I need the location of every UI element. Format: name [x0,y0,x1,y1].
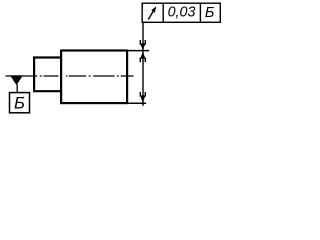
extension line bottom [127,102,146,104]
datum frame box [10,93,30,113]
svg-text:Б: Б [14,93,25,112]
part outline: small cylinder (left step) [34,58,61,92]
radial runout symbol arrow shaft [148,10,154,20]
svg-text:Б: Б [205,5,215,21]
arrowhead up below top extension line [140,52,146,62]
radial runout symbol arrowhead [151,6,156,13]
extension line top [127,50,149,52]
centerline axis: solid left portion at datum [6,75,38,77]
datum triangle [10,75,23,85]
arrowhead down at bottom extension line [140,92,146,103]
arrowhead down at top extension line [140,40,146,50]
svg-text:0,03: 0,03 [168,5,196,21]
cell divider 2 [199,3,201,22]
centerline axis: dash-dot portion [40,75,134,77]
leader line from frame down to part [142,22,144,106]
feature control frame [142,3,220,22]
datum leader stem [16,85,18,93]
cell divider 1 [162,3,164,22]
part outline: large cylinder [61,51,127,104]
